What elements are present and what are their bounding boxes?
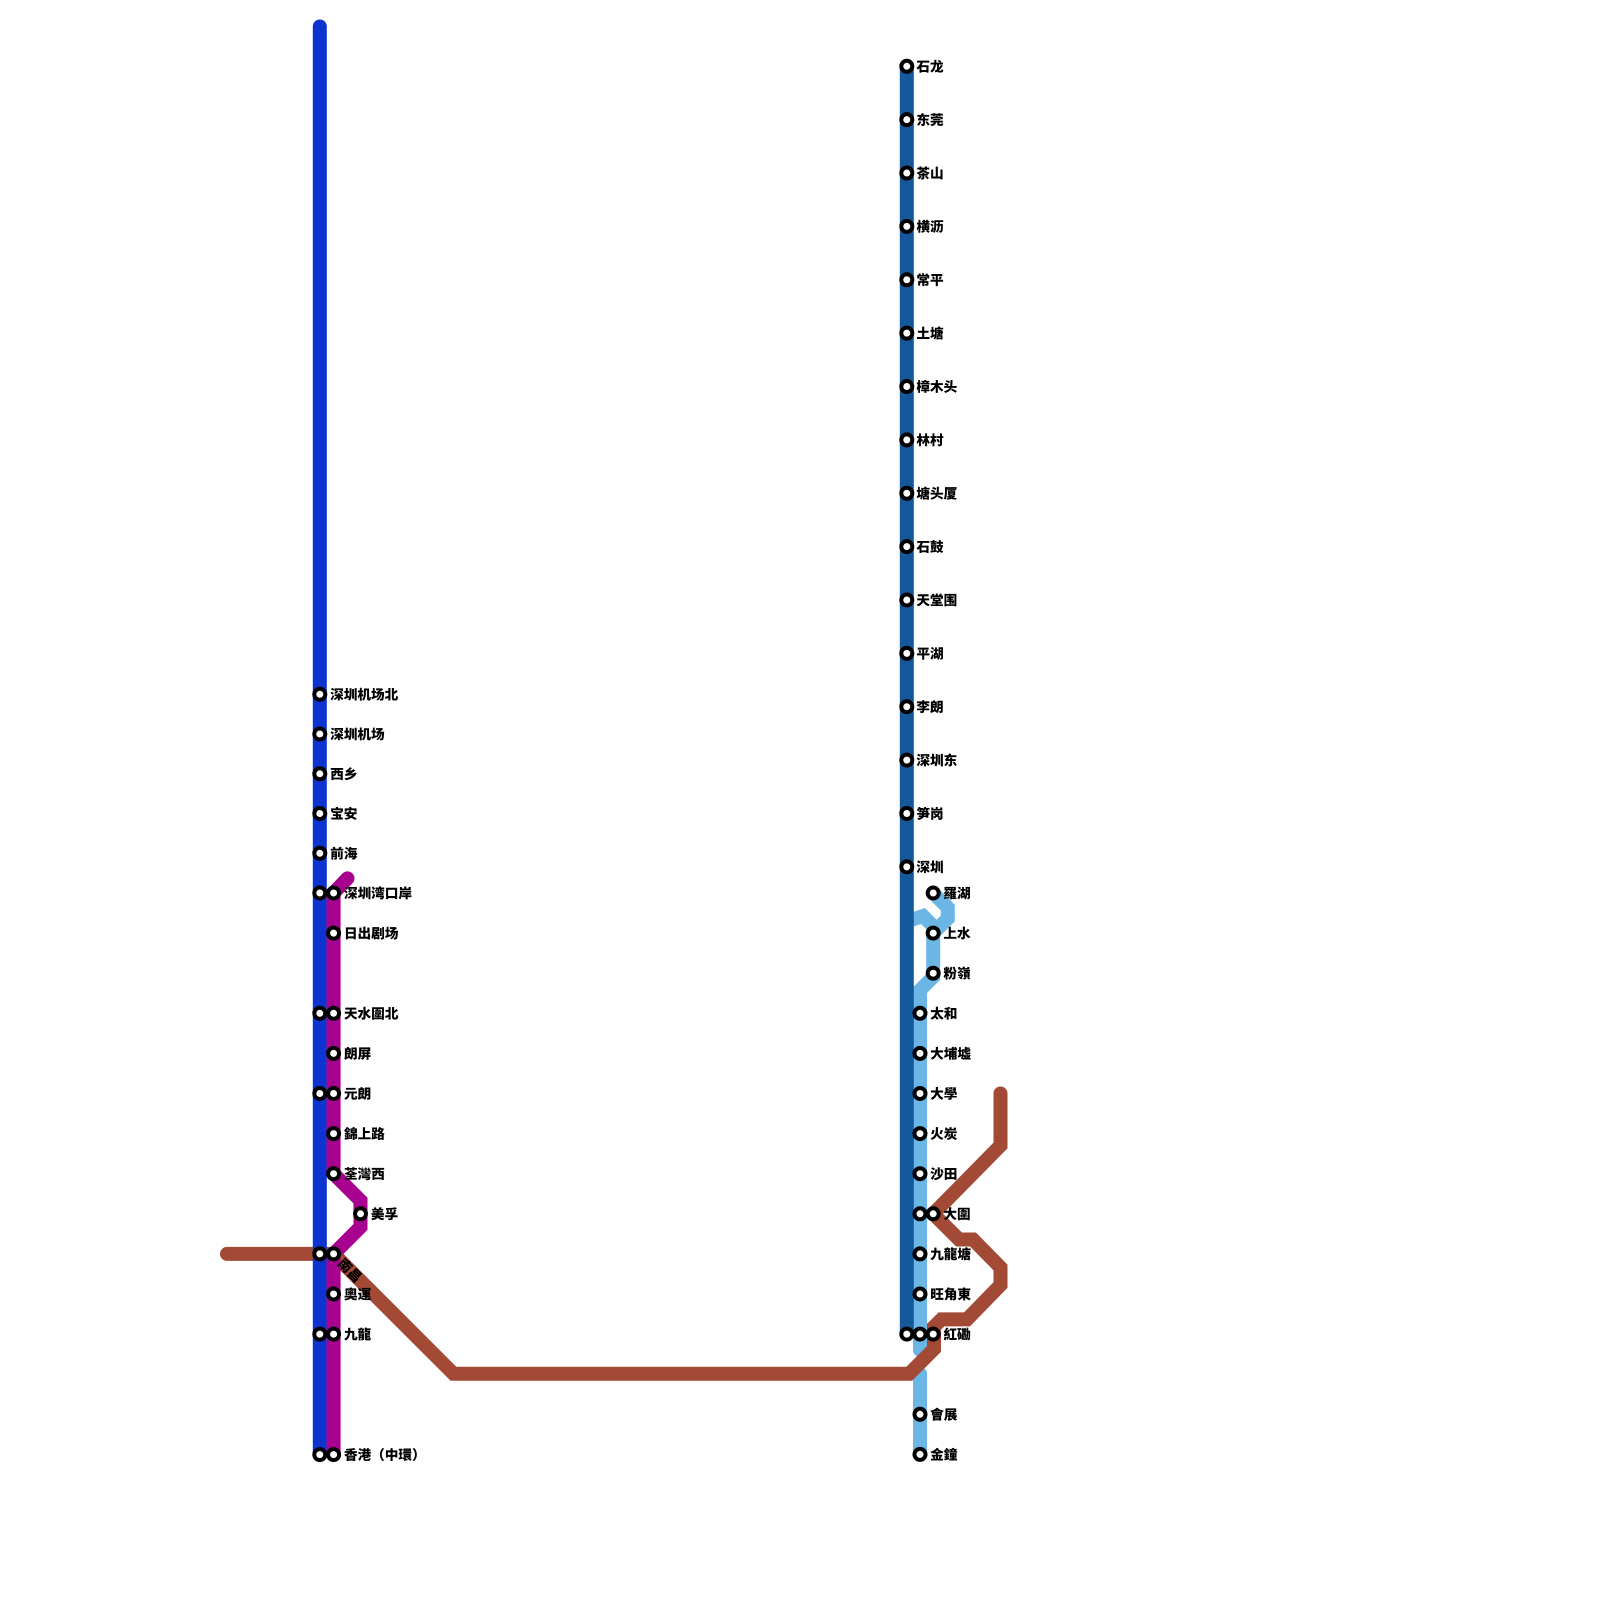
station 元朗 (314, 1087, 370, 1100)
station 大圍 (915, 1207, 970, 1220)
station 香港（中環） (314, 1448, 417, 1461)
station 大埔墟 (915, 1047, 971, 1060)
station 土塘 (901, 326, 943, 339)
station 深圳机场 (314, 727, 384, 740)
station 笋岗 (901, 807, 942, 820)
station 大學 (915, 1087, 957, 1100)
station 朗屏 (328, 1047, 371, 1060)
station 横沥 (901, 220, 943, 233)
station 九龍塘 (915, 1247, 971, 1260)
station 太和 (915, 1007, 957, 1020)
station 宝安 (314, 807, 356, 820)
station 深圳机场北 (314, 688, 398, 701)
station 南昌 (junction, rotated label) (314, 1248, 363, 1283)
station 奧運 (328, 1287, 371, 1300)
station 李朗 (901, 700, 942, 713)
station 沙田 (915, 1167, 957, 1180)
station 平湖 (901, 647, 943, 660)
station 天水圍北 (314, 1007, 398, 1020)
station 深圳 (901, 860, 943, 873)
station 日出剧场 (328, 927, 398, 940)
East Rail light blue line lower section (below 紅磡 gap) (913, 1374, 927, 1455)
station 天堂围 (901, 593, 956, 606)
station 粉嶺 (928, 967, 971, 980)
station 九龍 (314, 1327, 371, 1340)
station 上水 (928, 927, 971, 940)
station 美孚 (355, 1207, 398, 1220)
station 紅磡 (901, 1328, 970, 1341)
station 常平 (901, 273, 943, 286)
station 前海 (314, 847, 357, 860)
station 會展 (915, 1408, 958, 1421)
station 羅湖 (928, 887, 970, 900)
brown line (南昌-大圍 loop) (227, 1094, 1001, 1374)
station 深圳东 (901, 753, 957, 766)
station 金鐘 (915, 1448, 958, 1461)
left blue trunk line (top - 香港中環) (313, 27, 327, 1455)
East Rail 落馬洲 branch spur to 上水 (910, 916, 934, 926)
station 东莞 (901, 113, 943, 126)
station 樟木头 (901, 380, 957, 393)
station 荃灣西 (328, 1167, 384, 1180)
East Rail light blue line (羅湖-金鐘) upper section (920, 893, 948, 1350)
station 深圳湾口岸 (314, 886, 411, 899)
dark blue 广深铁路 line (石龙-紅磡) (900, 66, 914, 1334)
station 塘头厦 (901, 487, 957, 500)
station 西乡 (314, 767, 356, 780)
purple line (深圳湾口岸-香港中環) (334, 878, 361, 1454)
station 火炭 (915, 1127, 957, 1140)
station 茶山 (901, 167, 942, 180)
station 旺角東 (915, 1287, 971, 1300)
station 石龙 (901, 60, 943, 73)
station 林村 (901, 433, 943, 446)
station 錦上路 (328, 1127, 385, 1140)
station 石鼓 (901, 540, 943, 553)
